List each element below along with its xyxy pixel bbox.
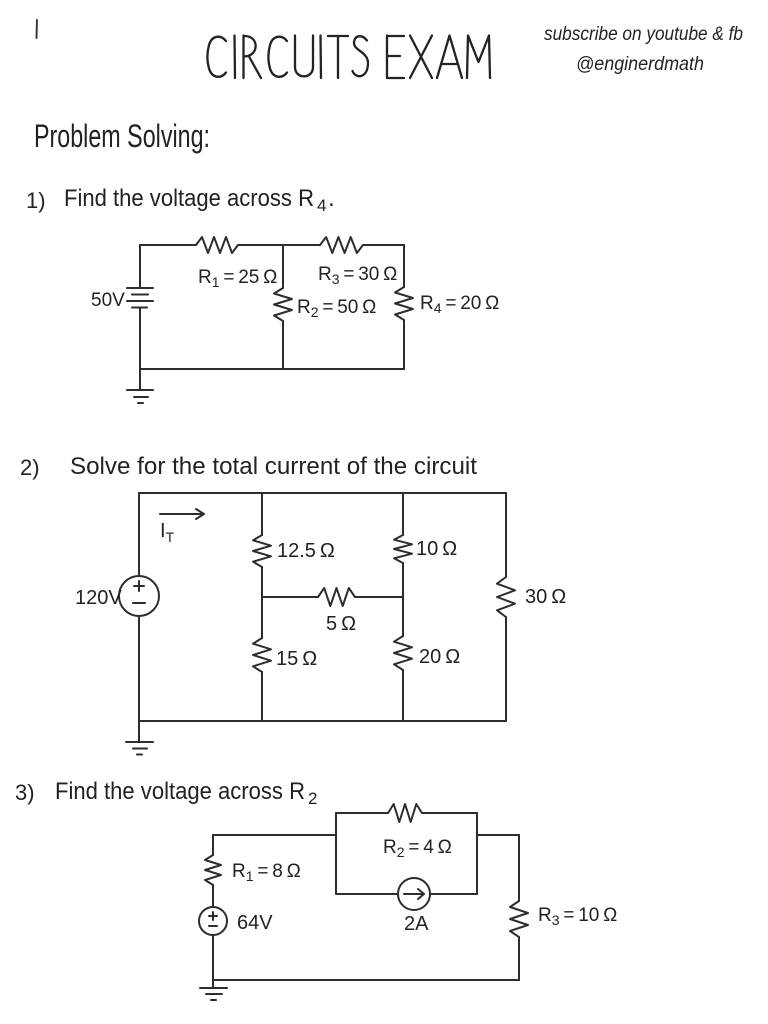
resistor 10ohm [394,535,412,563]
wire 30ohm to bottom rail [505,617,507,721]
ground symbol [126,742,153,755]
wire bottom rail [213,979,519,981]
page number 1 [36,20,39,38]
box bottom edge right [430,893,477,895]
letter E [387,36,404,79]
wire top-left horizontal [213,834,336,836]
wire source to bottom rail [212,935,214,980]
resistor 5ohm [318,588,355,606]
svg-text:3): 3) [15,780,35,805]
svg-text:R4 = 20 Ω: R4 = 20 Ω [420,293,499,316]
svg-text:64V: 64V [237,912,273,934]
source plus sign [209,912,217,920]
wire left vertical above battery [139,245,141,287]
resistor 30ohm [497,577,515,617]
wire branch2 top [261,493,263,535]
svg-text:120V: 120V [75,587,122,609]
wire bottom rail [140,368,404,370]
svg-text:2A: 2A [404,913,429,935]
wire branch3 below node [402,597,404,636]
source minus sign [133,602,145,604]
letter I [233,36,236,79]
source plus sign [134,581,144,591]
svg-text:12.5 Ω: 12.5 Ω [277,540,335,562]
resistor R4 [395,287,413,320]
wire ground stem [212,980,214,988]
wire node A down to R2 [282,245,284,288]
box left edge [335,813,337,894]
wire battery bottom to bottom rail [139,308,141,369]
wire ground stem [139,369,141,390]
wire middle rail left [262,596,318,598]
letter M [467,36,490,79]
wire 12.5ohm to middle node [261,567,263,597]
ground symbol [127,390,153,403]
letter U [295,36,313,77]
svg-text:2): 2) [20,455,40,480]
wire left vertical above R1 [212,835,214,855]
svg-text:subscribe on youtube & fb: subscribe on youtube & fb [544,24,743,45]
wire between R1 and node A [238,244,320,246]
svg-text:R3 = 10 Ω: R3 = 10 Ω [538,905,617,928]
svg-text:Solve for the total current of: Solve for the total current of the circu… [70,453,477,480]
svg-text:50V: 50V [91,290,125,311]
svg-text:.: . [328,185,335,212]
svg-text:30 Ω: 30 Ω [525,586,566,608]
svg-text:R3 = 30 Ω: R3 = 30 Ω [318,264,397,287]
wire right vertical above 30ohm [505,493,507,577]
letter C [208,37,227,77]
letter I [319,36,322,79]
current source arrow [404,889,424,899]
wire branch2 below node [261,597,263,638]
current source 2A circle [398,878,430,910]
svg-text:@enginerdmath: @enginerdmath [576,54,704,75]
svg-text:IT: IT [160,520,175,545]
resistor R2 [274,288,292,321]
svg-text:R2 = 4 Ω: R2 = 4 Ω [383,837,452,860]
ground symbol [200,988,227,1000]
svg-text:Find the voltage across R: Find the voltage across R [64,185,314,212]
wire R4 to bottom rail [403,320,405,369]
svg-text:R1 = 25 Ω: R1 = 25 Ω [198,267,277,290]
wire 10ohm to middle node [402,563,404,597]
letter X [410,36,432,79]
letter A [437,36,462,79]
resistor 20ohm [394,636,412,670]
wire R1 to source [212,885,214,907]
current arrow IT [160,509,204,519]
svg-text:2: 2 [308,789,317,808]
svg-text:Find the voltage across R: Find the voltage across R [55,778,305,805]
resistor 15ohm [253,638,271,672]
wire top-left segment [140,244,196,246]
wire 20ohm to bottom rail [402,670,404,721]
wire left vertical above source [138,493,140,576]
battery V1 50V plates [127,288,153,308]
resistor R1 [196,237,238,253]
box top edge left [336,812,388,814]
svg-text:R1 = 8 Ω: R1 = 8 Ω [232,861,301,884]
svg-text:R2 = 50 Ω: R2 = 50 Ω [297,297,376,320]
wire 15ohm to bottom rail [261,672,263,721]
wire middle rail right [355,596,403,598]
svg-text:Problem Solving:: Problem Solving: [34,118,210,154]
svg-text:20 Ω: 20 Ω [419,646,460,668]
wire source bottom to bottom rail [138,616,140,721]
box bottom edge left [336,893,398,895]
wire right vertical above R3 [518,835,520,901]
resistor R3 [510,901,528,937]
letter R [244,36,262,79]
letter S [353,36,369,76]
wire branch3 top [402,493,404,535]
box top edge right [422,812,477,814]
voltage source V 120V circle [119,576,159,616]
letter T [328,36,348,78]
title CIRCUITS EXAM (hand-drawn thin capitals) [208,36,491,79]
wire box to right vertical [477,834,519,836]
box right edge [476,813,478,894]
voltage source 64V circle [199,907,227,935]
svg-text:4: 4 [317,196,326,215]
svg-text:1): 1) [26,188,46,213]
svg-text:15 Ω: 15 Ω [276,648,317,670]
resistor R1 [205,855,221,885]
wire ground stem [138,721,140,742]
letter C [269,37,288,77]
resistor R3 [320,237,363,253]
wire bottom rail [139,720,506,722]
wire R3 to bottom rail [518,937,520,980]
wire R3 to top-right corner [363,244,404,246]
svg-text:5 Ω: 5 Ω [326,613,356,635]
svg-text:10 Ω: 10 Ω [416,538,457,560]
resistor 12.5ohm [253,535,271,567]
wire right vertical above R4 [403,245,405,287]
source minus sign [209,925,217,927]
resistor R2 [388,804,422,822]
wire top rail [139,492,506,494]
wire R2 to bottom rail [282,321,284,369]
